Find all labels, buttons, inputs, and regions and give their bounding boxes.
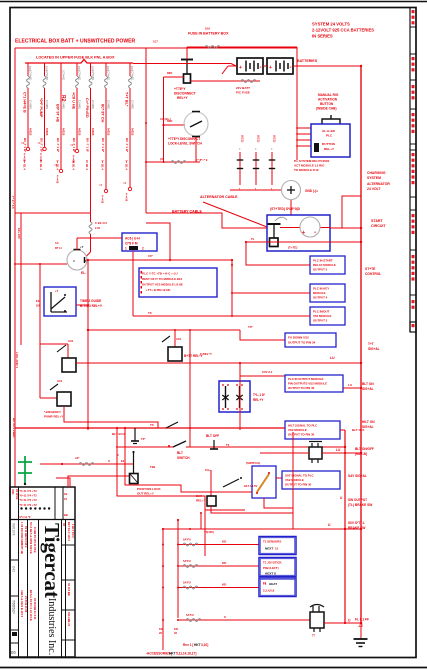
svg-text:CIRCUIT: CIRCUIT bbox=[371, 224, 386, 228]
svg-text:1C*0=B1: 1C*0=B1 bbox=[29, 70, 32, 81]
svg-text:Rev 1 [: Rev 1 [ bbox=[183, 643, 194, 647]
switch key S1 bbox=[67, 250, 87, 270]
svg-text:ALTERNATOR CABLE: ALTERNATOR CABLE bbox=[200, 195, 238, 199]
svg-text:T* 4=* 3.5: T* 4=* 3.5 bbox=[11, 196, 15, 209]
wire staircase C bbox=[204, 510, 206, 556]
label fuse F6 end bbox=[104, 189, 107, 192]
svg-text:+TT+ B PIN 12 HE: +TT+ B PIN 12 HE bbox=[146, 288, 170, 292]
svg-text:D43: D43 bbox=[12, 566, 16, 572]
svg-text:CHARGING: CHARGING bbox=[367, 171, 386, 175]
svg-text:IN SERIES: IN SERIES bbox=[312, 34, 333, 39]
svg-text:5A*FU: 5A*FU bbox=[183, 581, 191, 585]
svg-text:HEAT: HEAT bbox=[269, 582, 277, 586]
wire diode trunk drop bbox=[239, 363, 241, 430]
svg-text:21 04B1: 21 04B1 bbox=[62, 100, 65, 110]
wire trunk row 428 bbox=[15, 427, 285, 429]
svg-text:ALTERNATOR: ALTERNATOR bbox=[367, 182, 390, 186]
wire plc input 2 bbox=[232, 292, 310, 294]
svg-text:PLC: PLC bbox=[326, 134, 333, 138]
wire starter to trunk upper bbox=[330, 227, 361, 229]
svg-text:-: - bbox=[260, 65, 262, 71]
svg-text:+T: +T bbox=[80, 245, 84, 249]
wire trunk row 330 bbox=[88, 329, 240, 331]
svg-text:04 115 B: 04 115 B bbox=[15, 489, 19, 500]
wire relay K3 path bbox=[64, 406, 158, 428]
svg-text:PLC IN OUTPUT MODULE: PLC IN OUTPUT MODULE bbox=[288, 377, 324, 381]
svg-text:1C*0=B1: 1C*0=B1 bbox=[107, 70, 110, 81]
svg-text:11 BB 04 115 21 04 B: 11 BB 04 115 21 04 B bbox=[33, 527, 37, 553]
svg-text:BLT ON/OFF: BLT ON/OFF bbox=[355, 447, 374, 451]
svg-text:MODULE: MODULE bbox=[313, 291, 326, 295]
svg-text:0421B: 0421B bbox=[78, 128, 81, 136]
svg-text:24V BATT: 24V BATT bbox=[236, 86, 250, 90]
svg-text:AC6 | U-H: AC6 | U-H bbox=[125, 237, 140, 241]
svg-text:C=* P0=ED: C=* P0=ED bbox=[85, 98, 89, 118]
fuse F6 bbox=[105, 63, 107, 76]
wire relay K2 out bbox=[76, 362, 361, 364]
svg-text:T1: T1 bbox=[263, 582, 267, 586]
wire sensor row 3 bbox=[178, 587, 259, 589]
svg-text:0= B1 4: 0= B1 4 bbox=[125, 160, 129, 170]
svg-text:(T+TE): (T+TE) bbox=[288, 246, 297, 250]
wire fuse F1 drop bbox=[27, 88, 29, 147]
svg-text:T0: T0 bbox=[226, 443, 230, 447]
svg-text:21 04B1: 21 04B1 bbox=[91, 100, 94, 110]
svg-text:1C*0=B1: 1C*0=B1 bbox=[131, 70, 134, 81]
svg-text:ACT MODULE L2 RIG: ACT MODULE L2 RIG bbox=[294, 164, 325, 168]
svg-text:04 11 BB 04 115 2: 04 11 BB 04 115 2 bbox=[24, 526, 28, 548]
title block frame bbox=[10, 487, 75, 657]
wire trunk x293 bbox=[292, 432, 294, 529]
svg-text:21 04 B 11 04: 21 04 B 11 04 bbox=[24, 596, 28, 613]
svg-text:3,10]: 3,10] bbox=[201, 643, 208, 647]
ground blt ecu bbox=[134, 428, 136, 441]
svg-text:CONTROL: CONTROL bbox=[365, 272, 381, 276]
svg-text:21 04B1: 21 04B1 bbox=[78, 100, 81, 110]
svg-text:15: 15 bbox=[275, 547, 279, 551]
svg-text:4 =4 B: 4 =4 B bbox=[23, 153, 27, 161]
svg-text:E0: E0 bbox=[121, 459, 125, 463]
wire switch out right bbox=[276, 477, 282, 479]
svg-text:BUTTON: BUTTON bbox=[320, 102, 334, 106]
wire relay K6 path bbox=[211, 506, 293, 513]
svg-text:HILT SIGNAL TO PLC: HILT SIGNAL TO PLC bbox=[288, 424, 318, 428]
svg-text:SYSTEM: SYSTEM bbox=[367, 176, 381, 180]
svg-text:V52 MODULE: V52 MODULE bbox=[313, 314, 332, 318]
svg-text:SW OUTPUT: SW OUTPUT bbox=[348, 498, 367, 502]
plc input box 3 bbox=[310, 307, 345, 325]
relay K6 bbox=[210, 470, 212, 496]
wire fuse F6 drop bbox=[105, 88, 107, 189]
svg-text:ACTIVATION: ACTIVATION bbox=[318, 98, 338, 102]
svg-text:20: 20 bbox=[159, 631, 162, 635]
plc fu down box bbox=[285, 333, 336, 347]
wire electrical box top edge bbox=[15, 47, 297, 49]
svg-text:SYSTEM 24 VOLTS: SYSTEM 24 VOLTS bbox=[312, 22, 350, 27]
svg-text:4 =4 B: 4 =4 B bbox=[39, 153, 43, 161]
svg-text:SIG+AL: SIG+AL bbox=[368, 347, 380, 351]
wire bus to battery bbox=[133, 63, 231, 65]
svg-text:OUTPUT 5: OUTPUT 5 bbox=[313, 268, 328, 272]
svg-text:REL+Y: REL+Y bbox=[177, 96, 189, 100]
svg-text:A01: A01 bbox=[68, 339, 74, 343]
svg-text:BLT 04-C 115 2: BLT 04-C 115 2 bbox=[67, 522, 71, 541]
svg-text:0421B: 0421B bbox=[45, 128, 48, 136]
plc input box 2 bbox=[310, 284, 345, 302]
wire diode to plc2 top bbox=[240, 375, 285, 377]
wire mlz row bbox=[260, 452, 309, 454]
svg-text:2-12VOLT 925 CCA BATTERIES: 2-12VOLT 925 CCA BATTERIES bbox=[312, 28, 374, 33]
svg-text:2,3,4,5,9: 2,3,4,5,9 bbox=[263, 589, 275, 593]
relay K4 bbox=[174, 330, 176, 347]
svg-text:0= B1 4: 0= B1 4 bbox=[39, 160, 43, 170]
svg-text:GND (-)=: GND (-)= bbox=[305, 189, 318, 193]
svg-text:B0 -T 1 B*: B0 -T 1 B* bbox=[23, 138, 27, 153]
svg-text:1 BLT 04=C: 1 BLT 04=C bbox=[71, 524, 75, 538]
wire row 529 bbox=[163, 528, 361, 530]
wire battery feed top bbox=[187, 46, 297, 48]
wire alternator to starter bbox=[290, 200, 292, 215]
svg-text:BUTTON: BUTTON bbox=[322, 142, 336, 146]
wire plc2 to trunk bbox=[343, 387, 361, 389]
switch battery disconnect rotary bbox=[184, 112, 208, 136]
svg-text:4 =4 B: 4 =4 B bbox=[101, 195, 105, 203]
svg-text:A01: A01 bbox=[176, 337, 182, 341]
wire corner step bbox=[56, 478, 70, 487]
svg-text:P0B (LEFT): P0B (LEFT) bbox=[263, 566, 279, 570]
svg-text:+TTE*Y DISCONN*CT: +TTE*Y DISCONN*CT bbox=[168, 137, 200, 141]
svg-text:(INSIDE CAB): (INSIDE CAB) bbox=[316, 107, 337, 111]
svg-text:21 04B1: 21 04B1 bbox=[45, 100, 48, 110]
label fuse F4 end bbox=[75, 149, 78, 152]
svg-text:ELECTRICAL BOX BATT + UNSWIT: ELECTRICAL BOX BATT + UNSWITCHED POWER bbox=[15, 39, 136, 45]
svg-text:BATTERY CABLE: BATTERY CABLE bbox=[172, 210, 202, 214]
svg-text:OUT REL+Y: OUT REL+Y bbox=[137, 492, 154, 496]
svg-text:B0 -T 1 B*: B0 -T 1 B* bbox=[85, 138, 89, 153]
wire alternator row bbox=[146, 161, 200, 163]
svg-text:REL+Y: REL+Y bbox=[324, 147, 335, 151]
fuse F13 bbox=[183, 543, 198, 546]
svg-text:+TTE*Y: +TTE*Y bbox=[174, 87, 186, 91]
svg-text:5A*FU: 5A*FU bbox=[183, 559, 191, 563]
svg-text:FUSE IN BATTERY BOX: FUSE IN BATTERY BOX bbox=[188, 32, 229, 36]
svg-text:0421B: 0421B bbox=[62, 128, 65, 136]
title block left column rows bbox=[10, 559, 19, 561]
fuse F11 bbox=[171, 161, 186, 164]
fuse F9 battery box bbox=[205, 46, 220, 49]
svg-text:0= B1 4: 0= B1 4 bbox=[101, 160, 105, 170]
relay battery disconnect coil bbox=[184, 74, 191, 83]
title block right cells bbox=[62, 544, 76, 546]
svg-text:+: + bbox=[302, 230, 305, 236]
svg-text:BLT ON: BLT ON bbox=[362, 382, 374, 386]
svg-text:-: - bbox=[290, 65, 292, 71]
svg-text:*-ERGENCY: *-ERGENCY bbox=[44, 410, 61, 414]
wire relay K1 to key drop bbox=[76, 304, 88, 306]
svg-text:1B: 1B bbox=[62, 523, 65, 526]
svg-text:OUTPUT TO PIN 34: OUTPUT TO PIN 34 bbox=[288, 341, 316, 345]
svg-text:LOCK-LEVEL SWITCH: LOCK-LEVEL SWITCH bbox=[168, 142, 202, 146]
plc output box 2 bbox=[285, 375, 343, 392]
svg-text:1C*0=B1: 1C*0=B1 bbox=[91, 70, 94, 81]
fuse F10 aux bbox=[191, 80, 261, 82]
diode box bbox=[219, 381, 250, 412]
wire battery inlet bbox=[228, 65, 237, 67]
svg-text:1C*: 1C* bbox=[153, 40, 159, 44]
svg-text:LU: LU bbox=[330, 356, 335, 360]
svg-text:TO MODULE P.12: TO MODULE P.12 bbox=[294, 168, 319, 172]
svg-text:DISCONNECT: DISCONNECT bbox=[174, 92, 196, 96]
svg-text:1 04 PH 0090 SDM24T 4B: 1 04 PH 0090 SDM24T 4B bbox=[20, 522, 24, 554]
plc main box U4 bbox=[139, 268, 217, 297]
svg-text:21 04B1: 21 04B1 bbox=[29, 100, 32, 110]
switch battery disconnect lever bbox=[181, 59, 193, 61]
wire feed left bbox=[15, 263, 67, 265]
wire fuse F5 drop bbox=[90, 88, 92, 213]
svg-text:B0 -T 1 B*: B0 -T 1 B* bbox=[101, 138, 105, 153]
wire fuse bank bottom bbox=[15, 212, 91, 214]
relay K3 bbox=[40, 397, 57, 399]
svg-text:NEXT: NEXT bbox=[265, 547, 273, 551]
connector bottom bbox=[310, 612, 324, 628]
svg-text:S0V S*TT.L: S0V S*TT.L bbox=[348, 521, 365, 525]
svg-text:EL-: EL- bbox=[81, 271, 86, 275]
svg-text:FL 8.1 FF: FL 8.1 FF bbox=[355, 618, 369, 622]
wire starter row 242 bbox=[247, 241, 361, 243]
svg-text:75D52=: 75D52= bbox=[12, 600, 17, 615]
svg-text:BLT+L 04 5C=1 44 115 B: BLT+L 04 5C=1 44 115 B bbox=[29, 590, 33, 621]
svg-text:RED: RED bbox=[167, 72, 172, 75]
svg-text:OUTPUT TO PIN 30: OUTPUT TO PIN 30 bbox=[288, 386, 315, 390]
svg-text:AL-G-ER: AL-G-ER bbox=[322, 129, 336, 133]
svg-text:REL+Y: REL+Y bbox=[253, 398, 264, 402]
svg-text:HKT: HKT bbox=[194, 643, 201, 647]
wire plc stubs bbox=[297, 127, 311, 129]
svg-text:00: 00 bbox=[11, 650, 16, 655]
fuse F3 bbox=[60, 63, 62, 76]
wire starter left entry bbox=[222, 227, 267, 229]
wire key down bbox=[87, 260, 89, 430]
wire connector to ground trunk bbox=[324, 622, 361, 624]
svg-text:B0 -T 1 B*: B0 -T 1 B* bbox=[39, 138, 43, 153]
plc input box 1 bbox=[310, 256, 345, 274]
wire plc input 1 bbox=[246, 264, 310, 266]
svg-text:T0: T0 bbox=[148, 311, 152, 315]
wire battery cable diagonal bbox=[203, 202, 267, 227]
fuse F12 row bbox=[40, 463, 133, 465]
svg-text:FU DOWN VS2: FU DOWN VS2 bbox=[288, 336, 309, 340]
svg-text:BATTERIES: BATTERIES bbox=[297, 59, 318, 63]
fuse bus bar bbox=[25, 60, 133, 64]
svg-text:KD: KD bbox=[174, 627, 178, 631]
switch sav bbox=[223, 479, 239, 487]
svg-text:KD: KD bbox=[159, 627, 163, 631]
svg-text:(*): (*) bbox=[312, 634, 315, 637]
svg-text:0421B: 0421B bbox=[131, 128, 134, 136]
svg-text:LOCATED IN UPPER FUSE BLK PNL: LOCATED IN UPPER FUSE BLK PNL A BOX bbox=[36, 56, 115, 60]
svg-text:E0+ 230: E0+ 230 bbox=[17, 228, 21, 239]
svg-text:OUTPUT 2: OUTPUT 2 bbox=[313, 319, 328, 323]
svg-text:1C*0=B1: 1C*0=B1 bbox=[78, 70, 81, 81]
sensor box 3 bbox=[259, 578, 296, 597]
revision strip bbox=[409, 8, 411, 333]
svg-text:0= B1 4: 0= B1 4 bbox=[23, 160, 27, 170]
svg-text:RELAY MODULE: RELAY MODULE bbox=[313, 263, 336, 267]
wire plc box1 feed bbox=[245, 242, 247, 266]
svg-text:0= B1 4: 0= B1 4 bbox=[85, 160, 89, 170]
svg-text:OUTPUT 4: OUTPUT 4 bbox=[313, 296, 328, 300]
svg-text:PLC IN KEY: PLC IN KEY bbox=[313, 287, 329, 291]
fuse F14 bbox=[183, 565, 198, 568]
plc hilt box bbox=[285, 421, 340, 439]
svg-text:0421B: 0421B bbox=[107, 128, 110, 136]
fuse F8 key feed bbox=[90, 213, 92, 222]
svg-text:0411: 0411 bbox=[11, 489, 15, 495]
wire switch out bottom bbox=[264, 498, 293, 508]
svg-text:BLT ECU: BLT ECU bbox=[112, 432, 125, 436]
svg-text:SIG+AL: SIG+AL bbox=[362, 387, 374, 391]
svg-text:OUTPUT TO PIN 30: OUTPUT TO PIN 30 bbox=[288, 433, 315, 437]
wire trunk x178 bbox=[177, 520, 179, 618]
svg-text:(XC1): (XC1) bbox=[241, 135, 245, 142]
wire node drop x190 bbox=[189, 330, 191, 447]
svg-text:4 =4 B: 4 =4 B bbox=[72, 155, 76, 163]
fuse F5 bbox=[90, 63, 92, 76]
starter box U2 bbox=[267, 215, 330, 251]
wire left edge drop bbox=[14, 213, 16, 487]
svg-text:HKT: HKT bbox=[169, 652, 176, 656]
fuse F16 bbox=[186, 619, 201, 622]
svg-text:1C [B+]: 1C [B+] bbox=[160, 117, 171, 121]
wire sensor row 1 bbox=[178, 544, 259, 546]
svg-text:04 115 BB 11 4 21: 04 115 BB 11 4 21 bbox=[33, 598, 37, 620]
svg-text:21 04B1: 21 04B1 bbox=[107, 100, 110, 110]
svg-text:LU: LU bbox=[348, 383, 352, 387]
svg-text:B0* 9T HE: B0* 9T HE bbox=[56, 104, 60, 123]
svg-text:21 04B1: 21 04B1 bbox=[131, 100, 134, 110]
svg-text:BLT: BLT bbox=[177, 451, 183, 455]
svg-text:BB: BB bbox=[64, 513, 68, 517]
svg-text:PLC IN/OUT: PLC IN/OUT bbox=[313, 310, 330, 314]
wire to starter path bbox=[146, 213, 267, 228]
svg-text:REL+Y: REL+Y bbox=[196, 499, 206, 503]
relay K1 box bbox=[44, 287, 76, 316]
svg-text:1C*0=B1: 1C*0=B1 bbox=[62, 70, 65, 81]
svg-text:C0V 2-4: C0V 2-4 bbox=[262, 370, 273, 374]
svg-text:C0+: C0+ bbox=[205, 468, 211, 472]
svg-text:(XC1): (XC1) bbox=[257, 135, 261, 142]
svg-text:VS2 MODULE: VS2 MODULE bbox=[288, 428, 307, 432]
fuse F4 bbox=[76, 63, 78, 76]
plc rig box U3 bbox=[311, 124, 350, 157]
svg-text:5C=1 BLT+L 9456 0421 B: 5C=1 BLT+L 9456 0421 B bbox=[29, 522, 33, 554]
svg-text:*0=11 0*4 +T2: *0=11 0*4 +T2 bbox=[20, 494, 38, 498]
svg-text:(MLZ-B): (MLZ-B) bbox=[355, 452, 367, 456]
wire left third drop bbox=[39, 264, 41, 398]
svg-text:P/C FUSE: P/C FUSE bbox=[236, 91, 250, 95]
svg-text:P.L SYSTEM RIG PC2000: P.L SYSTEM RIG PC2000 bbox=[294, 159, 330, 163]
svg-text:0421B: 0421B bbox=[91, 128, 94, 136]
svg-text:C*1 H4=E B: C*1 H4=E B bbox=[23, 92, 27, 113]
svg-text:4 =4 B: 4 =4 B bbox=[125, 193, 129, 201]
svg-text:8T H: 8T H bbox=[55, 246, 62, 250]
wire alternator left bbox=[230, 189, 281, 191]
battery B1 bbox=[237, 58, 263, 74]
svg-text:*0=11 0*4 +T2: *0=11 0*4 +T2 bbox=[20, 503, 38, 507]
svg-text:T REL*Y: T REL*Y bbox=[200, 352, 212, 356]
wire battery link bbox=[263, 65, 267, 67]
switch rig pushbutton bbox=[322, 119, 340, 124]
wire charging loop bbox=[342, 196, 361, 228]
switch box S2 bbox=[252, 466, 276, 498]
wire disconnect to switch circle bbox=[164, 124, 186, 126]
svg-text:PUMP REL+Y: PUMP REL+Y bbox=[44, 415, 63, 419]
wire frame drop bbox=[145, 48, 147, 213]
svg-text:LOG AND 1: LOG AND 1 bbox=[15, 352, 19, 369]
svg-text:OUTPUT TO PIN 30: OUTPUT TO PIN 30 bbox=[285, 483, 312, 487]
svg-text:B0 -T 1 B*: B0 -T 1 B* bbox=[56, 138, 60, 153]
svg-text:5A*FU: 5A*FU bbox=[183, 538, 191, 542]
wire fuse F4 drop bbox=[76, 88, 78, 149]
wire fuse F2 drop bbox=[44, 88, 46, 147]
wire staircase B bbox=[125, 428, 252, 492]
sensor box 2 bbox=[259, 558, 296, 577]
connector MLZ bbox=[309, 447, 322, 459]
fuse F7 bbox=[129, 63, 131, 76]
wire battery negative drop bbox=[296, 47, 298, 160]
wire starter box drop bbox=[231, 260, 233, 316]
svg-text:9A7-13.5V: 9A7-13.5V bbox=[244, 484, 258, 488]
svg-text:5A*FU: 5A*FU bbox=[186, 613, 194, 617]
wire ground drop bbox=[360, 623, 362, 639]
svg-text:P.LC Y-TC +TB = H-C +-LU: P.LC Y-TC +TB = H-C +-LU bbox=[142, 272, 178, 276]
svg-text:24 VOLT: 24 VOLT bbox=[367, 187, 381, 191]
svg-text:START: START bbox=[371, 219, 384, 223]
wire bottom row bbox=[178, 619, 310, 621]
wire starter internal row bbox=[280, 227, 300, 229]
svg-text:5,11,14,16,17]: 5,11,14,16,17] bbox=[176, 652, 196, 656]
svg-text:VS2 MODULE: VS2 MODULE bbox=[285, 478, 304, 482]
svg-text:04 115 BB: 04 115 BB bbox=[67, 583, 71, 596]
wire fuse F3 drop bbox=[60, 76, 62, 169]
label fuse F3 end bbox=[59, 169, 62, 172]
wire trunk x163 bbox=[162, 529, 164, 650]
svg-text:T1 SENSORS: T1 SENSORS bbox=[263, 540, 281, 544]
wire main positive trunk bbox=[360, 66, 362, 623]
svg-text:C/*8 F M: C/*8 F M bbox=[125, 242, 138, 246]
relay K2 bbox=[40, 343, 68, 345]
svg-text:2: 2 bbox=[142, 247, 144, 251]
svg-text:ST+TE: ST+TE bbox=[365, 267, 376, 271]
starter solenoid contact bbox=[268, 223, 281, 225]
svg-text:-: - bbox=[314, 229, 316, 236]
svg-text:+: + bbox=[269, 65, 272, 71]
svg-text:T+T: T+T bbox=[368, 342, 374, 346]
svg-text:BLT OFF: BLT OFF bbox=[206, 434, 219, 438]
key switch connector box bbox=[122, 233, 157, 251]
label fuse F2 end bbox=[43, 147, 46, 150]
svg-text:4 =4 B: 4 =4 B bbox=[56, 175, 60, 183]
svg-text:2 0#: 2 0# bbox=[95, 226, 101, 230]
svg-text:(XC1): (XC1) bbox=[273, 135, 277, 142]
svg-text:0*4 11 *0: 0*4 11 *0 bbox=[20, 515, 31, 519]
wire battery positive to trunk bbox=[293, 65, 361, 67]
wire sensor row 2 bbox=[178, 565, 259, 567]
alternator G1 bbox=[282, 181, 301, 200]
svg-text:T1 JOYSTICK: T1 JOYSTICK bbox=[263, 561, 283, 565]
svg-text:POSITION LOCK: POSITION LOCK bbox=[137, 487, 162, 491]
fuse F2 bbox=[44, 63, 46, 76]
